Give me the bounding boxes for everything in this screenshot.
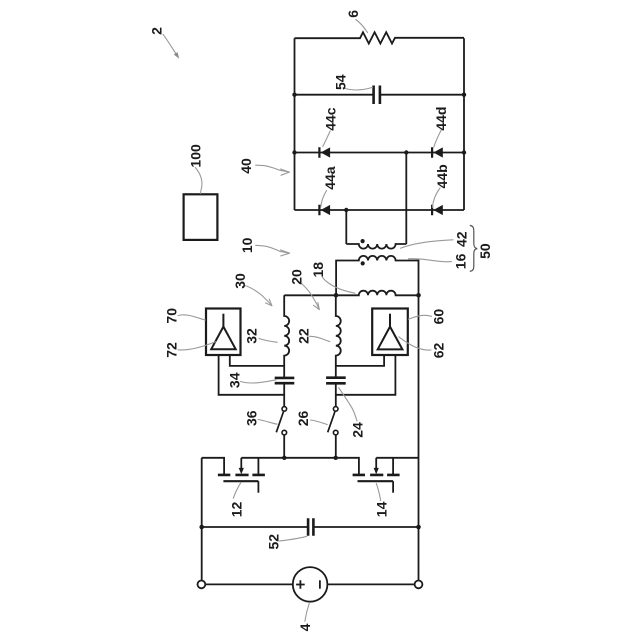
svg-text:40: 40 — [238, 158, 254, 174]
svg-text:16: 16 — [453, 253, 469, 269]
svg-text:20: 20 — [288, 269, 304, 285]
svg-text:10: 10 — [239, 237, 255, 253]
svg-text:32: 32 — [243, 328, 259, 344]
svg-text:44c: 44c — [323, 107, 339, 131]
svg-text:70: 70 — [164, 308, 180, 324]
svg-text:4: 4 — [297, 623, 313, 631]
svg-text:44d: 44d — [433, 107, 449, 131]
svg-text:26: 26 — [295, 411, 311, 427]
svg-text:12: 12 — [228, 502, 244, 518]
svg-text:34: 34 — [226, 372, 242, 388]
svg-text:18: 18 — [310, 262, 326, 278]
svg-text:44a: 44a — [322, 166, 338, 190]
svg-text:30: 30 — [232, 273, 248, 289]
svg-text:24: 24 — [349, 422, 365, 438]
svg-text:100: 100 — [187, 144, 203, 168]
svg-text:2: 2 — [148, 27, 164, 35]
svg-text:22: 22 — [296, 328, 312, 344]
svg-text:6: 6 — [345, 10, 361, 18]
svg-text:36: 36 — [244, 410, 260, 426]
svg-text:44b: 44b — [434, 164, 450, 188]
svg-text:14: 14 — [373, 501, 389, 517]
svg-text:60: 60 — [431, 309, 447, 325]
svg-text:72: 72 — [164, 342, 180, 358]
svg-text:50: 50 — [477, 243, 493, 259]
svg-text:62: 62 — [431, 343, 447, 359]
svg-text:42: 42 — [454, 231, 470, 247]
svg-text:54: 54 — [333, 74, 349, 90]
svg-text:52: 52 — [266, 534, 282, 550]
